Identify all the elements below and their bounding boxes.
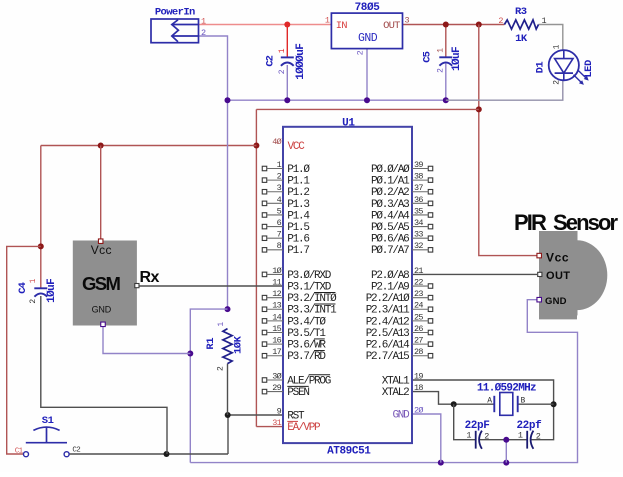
wire U1 XTAL2 to crystal A bbox=[412, 392, 494, 405]
svg-text:C1: C1 bbox=[15, 448, 24, 456]
capacitor C-right 22pf bbox=[526, 431, 528, 449]
svg-text:35: 35 bbox=[414, 206, 423, 216]
wire VCC left vertical to C4 bbox=[40, 146, 42, 289]
svg-text:D1: D1 bbox=[534, 62, 546, 74]
wire GSM Vcc drop bbox=[100, 146, 102, 240]
svg-text:PØ.5/A5: PØ.5/A5 bbox=[371, 222, 409, 234]
svg-text:1Ø: 1Ø bbox=[272, 266, 281, 276]
U1 pin 13 stub bbox=[262, 307, 267, 312]
svg-text:P3.Ø/RXD: P3.Ø/RXD bbox=[287, 270, 331, 282]
node junction GND C2 bbox=[284, 97, 290, 103]
wire R1 top to GND left rail bbox=[190, 309, 227, 463]
node junction OUT/C5 bbox=[443, 22, 449, 28]
svg-text:2: 2 bbox=[278, 69, 287, 74]
svg-text:PØ.Ø/AØ: PØ.Ø/AØ bbox=[371, 164, 410, 176]
wire VCC vertical along U1 to EA bbox=[255, 109, 257, 426]
svg-text:3Ø: 3Ø bbox=[272, 371, 281, 381]
svg-text:1: 1 bbox=[518, 431, 523, 441]
svg-text:Vcc: Vcc bbox=[546, 250, 569, 264]
svg-text:39: 39 bbox=[414, 160, 423, 170]
svg-text:VCC: VCC bbox=[288, 141, 306, 153]
wire crystal A to C-left bbox=[454, 404, 476, 440]
svg-text:P1.4: P1.4 bbox=[287, 210, 310, 222]
svg-text:2: 2 bbox=[484, 431, 489, 441]
svg-text:P1.6: P1.6 bbox=[287, 234, 309, 246]
svg-text:P1.7: P1.7 bbox=[287, 245, 309, 257]
svg-text:11.Ø592MHz: 11.Ø592MHz bbox=[477, 382, 536, 394]
svg-text:P1.2: P1.2 bbox=[287, 187, 309, 199]
svg-text:4Ø: 4Ø bbox=[272, 137, 281, 147]
svg-text:2: 2 bbox=[356, 50, 366, 55]
svg-text:C2: C2 bbox=[265, 55, 277, 66]
svg-text:XTAL2: XTAL2 bbox=[382, 387, 409, 399]
svg-text:38: 38 bbox=[414, 172, 423, 182]
svg-text:P2.5/A13: P2.5/A13 bbox=[366, 328, 409, 340]
svg-text:P2.3/A11: P2.3/A11 bbox=[366, 305, 410, 317]
svg-text:19: 19 bbox=[414, 371, 423, 381]
svg-text:RD: RD bbox=[314, 351, 326, 363]
U1 pin 17 stub bbox=[262, 353, 267, 358]
wire C-left to C-right midpoint bbox=[480, 439, 528, 441]
svg-text:R1: R1 bbox=[205, 338, 217, 350]
svg-text:5: 5 bbox=[277, 206, 282, 216]
U1 pin 4 stub bbox=[262, 201, 267, 206]
wire C2 top stub bbox=[286, 25, 288, 58]
node junction U1 pin20 on bus bbox=[438, 460, 444, 466]
wire LED cathode to GND bbox=[446, 80, 563, 100]
svg-text:P2.1/A9: P2.1/A9 bbox=[371, 281, 409, 293]
wire U1 XTAL1 to crystal B bbox=[412, 380, 554, 440]
wire GND bus top bbox=[227, 99, 446, 101]
node junction caps midpoint bbox=[503, 437, 509, 443]
svg-text:OUT: OUT bbox=[383, 20, 400, 32]
sensor PIR bbox=[539, 231, 607, 319]
wire GSM GND bbox=[103, 327, 190, 354]
svg-text:PØ.3/A3: PØ.3/A3 bbox=[371, 199, 409, 211]
svg-text:1: 1 bbox=[201, 16, 206, 26]
node junction C4 top bbox=[38, 243, 44, 249]
svg-text:P2.Ø/A8: P2.Ø/A8 bbox=[371, 270, 409, 282]
wire VCC to S1 C1 bbox=[7, 246, 41, 454]
svg-text:P3.7/: P3.7/ bbox=[287, 351, 314, 363]
svg-text:1: 1 bbox=[466, 431, 471, 441]
svg-text:B: B bbox=[521, 397, 526, 406]
svg-text:34: 34 bbox=[414, 218, 423, 228]
U1 pin 23 stub bbox=[428, 295, 433, 300]
svg-text:9: 9 bbox=[277, 406, 282, 416]
capacitor C5 bbox=[439, 56, 452, 58]
wire PowerIn pin2 to GND bus and R1 top bbox=[199, 36, 228, 309]
wire PowerIn pin1 to 7805 IN bbox=[199, 24, 332, 26]
svg-text:U1: U1 bbox=[342, 117, 355, 129]
U1 pin 32 stub bbox=[428, 248, 433, 253]
svg-text:2Ø: 2Ø bbox=[414, 405, 423, 415]
svg-text:PIR: PIR bbox=[514, 210, 547, 235]
capacitor C2 bbox=[281, 56, 294, 58]
svg-text:Vcc: Vcc bbox=[91, 243, 112, 257]
node junction crystal B bbox=[551, 401, 557, 407]
svg-text:PROG: PROG bbox=[309, 375, 331, 387]
wire RST to U1 pin9 bbox=[228, 414, 283, 416]
svg-text:12: 12 bbox=[272, 289, 281, 299]
svg-text:2: 2 bbox=[277, 172, 282, 182]
U1 pin 24 stub bbox=[428, 307, 433, 312]
node junction GND 7805 bbox=[364, 97, 370, 103]
svg-text:1: 1 bbox=[217, 322, 226, 327]
module GSM bbox=[73, 241, 137, 326]
U1 pin 25 stub bbox=[428, 319, 433, 324]
svg-text:7: 7 bbox=[277, 230, 282, 240]
svg-text:PSEN: PSEN bbox=[287, 387, 309, 399]
LED D1 bbox=[549, 50, 579, 80]
svg-text:6: 6 bbox=[277, 218, 282, 228]
svg-text:GND: GND bbox=[92, 304, 112, 314]
svg-text:P3.5/T1: P3.5/T1 bbox=[287, 328, 326, 340]
node junction GND PowerIn bbox=[225, 97, 231, 103]
svg-text:2: 2 bbox=[216, 366, 225, 371]
wire 7805 GND stub bbox=[366, 49, 368, 101]
svg-text:PØ.1/A1: PØ.1/A1 bbox=[371, 176, 410, 188]
U1 pin 3 stub bbox=[262, 189, 267, 194]
wire GND bottom bus to PIR GND bbox=[190, 300, 577, 463]
svg-text:22: 22 bbox=[414, 277, 423, 287]
U1 pin 37 stub bbox=[428, 189, 433, 194]
IC U1 AT89C51 body bbox=[283, 127, 412, 443]
node junction S1/C4/RST bbox=[164, 451, 170, 457]
svg-text:GND: GND bbox=[545, 296, 567, 307]
svg-text:2: 2 bbox=[498, 16, 503, 26]
capacitor C-left 22pF bbox=[475, 431, 477, 449]
U1 pin 1 stub bbox=[262, 166, 267, 171]
svg-text:P2.4/A12: P2.4/A12 bbox=[366, 316, 409, 328]
svg-text:3: 3 bbox=[277, 183, 282, 193]
svg-text:A: A bbox=[487, 397, 492, 406]
svg-text:2: 2 bbox=[201, 28, 206, 38]
wire VCC horizontal upper bbox=[256, 108, 478, 110]
svg-text:1ØK: 1ØK bbox=[233, 335, 245, 354]
node junction GSM Vcc branch bbox=[98, 143, 104, 149]
node junction VCC vertical bbox=[476, 106, 482, 112]
U1 pin 36 stub bbox=[428, 201, 433, 206]
svg-text:GSM: GSM bbox=[82, 273, 121, 294]
node junction U1 pin40 bbox=[253, 143, 259, 149]
svg-text:PowerIn: PowerIn bbox=[155, 7, 195, 19]
svg-text:C4: C4 bbox=[17, 282, 29, 293]
svg-text:C5: C5 bbox=[422, 51, 434, 62]
svg-text:26: 26 bbox=[414, 324, 423, 334]
node junction GSM GND joins rail bbox=[187, 351, 193, 357]
U1 pin 16 stub bbox=[262, 342, 267, 347]
svg-text:P1.5: P1.5 bbox=[287, 222, 309, 234]
node junction crystal caps on bus bbox=[503, 460, 509, 466]
U1 pin 35 stub bbox=[428, 213, 433, 218]
crystal X1 bbox=[493, 396, 495, 412]
svg-text:P3.2/: P3.2/ bbox=[287, 293, 314, 305]
U1 pin 5 stub bbox=[262, 213, 267, 218]
svg-text:P3.3/: P3.3/ bbox=[287, 305, 314, 317]
svg-text:14: 14 bbox=[272, 312, 281, 322]
wire R1 bottom to RST bbox=[227, 364, 229, 415]
svg-text:25: 25 bbox=[414, 312, 423, 322]
svg-text:C2: C2 bbox=[72, 447, 80, 455]
svg-text:P1.Ø: P1.Ø bbox=[287, 164, 310, 176]
svg-text:R3: R3 bbox=[515, 6, 527, 18]
svg-text:OUT: OUT bbox=[546, 270, 570, 282]
svg-text:13: 13 bbox=[272, 301, 281, 311]
pushbutton S1 bbox=[33, 427, 59, 430]
svg-text:16: 16 bbox=[272, 336, 281, 346]
U1 pin 14 stub bbox=[262, 319, 267, 324]
svg-text:2: 2 bbox=[553, 80, 562, 85]
svg-text:1: 1 bbox=[542, 16, 547, 26]
capacitor C4 bbox=[34, 287, 47, 289]
svg-text:1ØuF: 1ØuF bbox=[46, 279, 58, 303]
svg-text:23: 23 bbox=[414, 289, 423, 299]
wire VCC vertical to PIR Vcc bbox=[479, 25, 537, 256]
U1 pin 34 stub bbox=[428, 224, 433, 229]
svg-text:INTØ: INTØ bbox=[314, 293, 337, 305]
node junction crystal A bbox=[451, 401, 457, 407]
U1 pin 1Ø stub bbox=[262, 272, 267, 277]
svg-text:2: 2 bbox=[536, 431, 541, 441]
wire VCC horizontal to pin40 bbox=[41, 145, 257, 147]
pin PIR OUT bbox=[538, 272, 542, 276]
svg-text:1: 1 bbox=[553, 44, 562, 49]
svg-text:P3.1/TXD: P3.1/TXD bbox=[287, 281, 331, 293]
U1 pin 15 stub bbox=[262, 330, 267, 335]
U1 pin 12 stub bbox=[262, 295, 267, 300]
U1 pin 3Ø stub bbox=[262, 378, 267, 383]
svg-text:P2.6/A14: P2.6/A14 bbox=[366, 340, 410, 352]
svg-text:GND: GND bbox=[358, 32, 378, 45]
svg-text:1: 1 bbox=[277, 160, 282, 170]
svg-text:/VPP: /VPP bbox=[298, 422, 321, 434]
U1 pin 39 stub bbox=[428, 166, 433, 171]
svg-text:2: 2 bbox=[29, 299, 38, 304]
svg-text:ALE/: ALE/ bbox=[287, 375, 309, 387]
svg-text:RST: RST bbox=[287, 410, 305, 422]
connector PowerIn bbox=[151, 19, 199, 43]
node junction PowerIn/C2 bbox=[284, 22, 290, 28]
wire C4 bottom to RST net bbox=[41, 296, 167, 454]
svg-text:11: 11 bbox=[272, 277, 281, 287]
svg-text:4: 4 bbox=[277, 195, 282, 205]
wire U1 GND pin20 to bus bbox=[412, 414, 441, 463]
wire crystal B lead bbox=[518, 403, 554, 405]
svg-text:PØ.2/A2: PØ.2/A2 bbox=[371, 187, 409, 199]
U1 pin 2 stub bbox=[262, 178, 267, 183]
svg-text:3: 3 bbox=[405, 15, 410, 25]
svg-text:33: 33 bbox=[414, 230, 423, 240]
svg-text:AT89C51: AT89C51 bbox=[327, 446, 371, 458]
svg-text:PØ.7/A7: PØ.7/A7 bbox=[371, 245, 409, 257]
svg-text:Rx: Rx bbox=[140, 269, 160, 286]
wire GSM Rx to U1 P3.1/TXD bbox=[140, 285, 284, 287]
pin PIR GND bbox=[537, 297, 542, 302]
pin GSM GND bbox=[101, 322, 106, 327]
U1 pin 7 stub bbox=[262, 236, 267, 241]
svg-text:29: 29 bbox=[272, 383, 281, 393]
pin PIR Vcc bbox=[537, 253, 542, 258]
svg-text:1: 1 bbox=[29, 278, 38, 283]
pin GSM Rx bbox=[135, 284, 139, 288]
wire EA/VPP stub bbox=[256, 426, 283, 428]
svg-text:28: 28 bbox=[414, 347, 423, 357]
U1 pin 26 stub bbox=[428, 330, 433, 335]
svg-text:1ØuF: 1ØuF bbox=[451, 47, 463, 71]
svg-text:37: 37 bbox=[414, 183, 423, 193]
svg-text:1K: 1K bbox=[515, 33, 528, 45]
wire RST net vertical bbox=[227, 415, 229, 454]
U1 pin 6 stub bbox=[262, 224, 267, 229]
svg-text:27: 27 bbox=[414, 336, 423, 346]
svg-text:P3.4/TØ: P3.4/TØ bbox=[287, 316, 326, 328]
svg-text:P2.7/A15: P2.7/A15 bbox=[366, 351, 409, 363]
svg-text:8: 8 bbox=[277, 241, 282, 251]
svg-text:LED: LED bbox=[583, 60, 595, 78]
pin GSM Vcc bbox=[98, 239, 103, 244]
svg-text:24: 24 bbox=[414, 301, 423, 311]
svg-text:GND: GND bbox=[392, 409, 410, 421]
svg-text:IN: IN bbox=[336, 20, 348, 32]
svg-text:1ØØØuF: 1ØØØuF bbox=[295, 44, 307, 80]
svg-text:PØ.4/A4: PØ.4/A4 bbox=[371, 210, 410, 222]
svg-text:1: 1 bbox=[436, 48, 445, 53]
U1 pin 29 stub bbox=[262, 389, 267, 394]
node junction GND C5 LED bbox=[443, 97, 449, 103]
svg-text:1: 1 bbox=[325, 15, 330, 25]
wire U1 P2.0 to PIR OUT bbox=[412, 273, 537, 275]
node junction R1 top bbox=[225, 306, 231, 312]
svg-text:15: 15 bbox=[272, 324, 281, 334]
svg-text:17: 17 bbox=[272, 347, 281, 357]
svg-text:78Ø5: 78Ø5 bbox=[355, 2, 381, 14]
svg-text:P1.1: P1.1 bbox=[287, 176, 310, 188]
svg-text:36: 36 bbox=[414, 195, 423, 205]
svg-text:PØ.6/A6: PØ.6/A6 bbox=[371, 234, 409, 246]
U1 pin 28 stub bbox=[428, 353, 433, 358]
node junction OUT branch bbox=[476, 22, 482, 28]
svg-text:INT1: INT1 bbox=[314, 305, 337, 317]
U1 pin 38 stub bbox=[428, 178, 433, 183]
svg-text:1: 1 bbox=[278, 48, 287, 53]
svg-text:P2.2/A1Ø: P2.2/A1Ø bbox=[366, 293, 410, 305]
svg-text:S1: S1 bbox=[42, 415, 54, 427]
svg-text:Sensor: Sensor bbox=[553, 210, 619, 235]
svg-text:2: 2 bbox=[436, 68, 445, 73]
U1 pin 8 stub bbox=[262, 248, 267, 253]
wire 7805 OUT to R3 bbox=[403, 24, 505, 26]
resistor R3 bbox=[504, 20, 538, 29]
wire S1 C2 to RST net bbox=[69, 453, 228, 455]
regulator 7805 bbox=[331, 13, 402, 49]
wire C2 bottom stub bbox=[286, 65, 288, 100]
U1 pin 22 stub bbox=[428, 284, 433, 289]
resistor R1 bbox=[223, 329, 232, 364]
svg-text:21: 21 bbox=[414, 266, 423, 276]
svg-text:XTAL1: XTAL1 bbox=[382, 375, 410, 387]
svg-text:WR: WR bbox=[314, 340, 326, 352]
svg-text:P1.3: P1.3 bbox=[287, 199, 309, 211]
U1 pin 27 stub bbox=[428, 342, 433, 347]
wire R3 to LED anode bbox=[539, 25, 563, 51]
node junction RST bbox=[225, 412, 231, 418]
svg-text:32: 32 bbox=[414, 241, 423, 251]
wire C5 top stub bbox=[445, 25, 447, 58]
svg-text:31: 31 bbox=[272, 418, 281, 428]
wire C5 bottom stub bbox=[445, 64, 447, 101]
svg-text:18: 18 bbox=[414, 383, 423, 393]
wire crystal caps midpoint to bus bbox=[505, 440, 507, 463]
U1 pin 33 stub bbox=[428, 236, 433, 241]
svg-text:P3.6/: P3.6/ bbox=[287, 340, 314, 352]
